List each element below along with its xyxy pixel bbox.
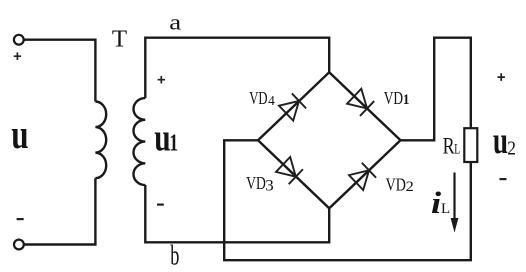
svg-text:1: 1 bbox=[403, 93, 410, 109]
svg-text:1: 1 bbox=[169, 129, 178, 156]
svg-text:3: 3 bbox=[265, 176, 273, 195]
svg-text:VD: VD bbox=[246, 173, 266, 193]
svg-text:u: u bbox=[11, 111, 28, 157]
svg-text:L: L bbox=[454, 141, 460, 157]
svg-text:VD: VD bbox=[384, 89, 403, 108]
svg-text:u: u bbox=[154, 117, 170, 160]
svg-text:R: R bbox=[443, 132, 455, 159]
svg-text:2: 2 bbox=[406, 179, 414, 195]
svg-text:b: b bbox=[170, 241, 179, 272]
svg-text:u: u bbox=[493, 121, 508, 162]
svg-text:T: T bbox=[112, 26, 127, 52]
svg-text:L: L bbox=[441, 201, 450, 217]
svg-text:2: 2 bbox=[507, 137, 516, 160]
svg-text:4: 4 bbox=[268, 93, 275, 108]
svg-text:a: a bbox=[169, 11, 181, 35]
svg-text:VD: VD bbox=[386, 174, 406, 195]
svg-text:VD: VD bbox=[249, 89, 267, 109]
